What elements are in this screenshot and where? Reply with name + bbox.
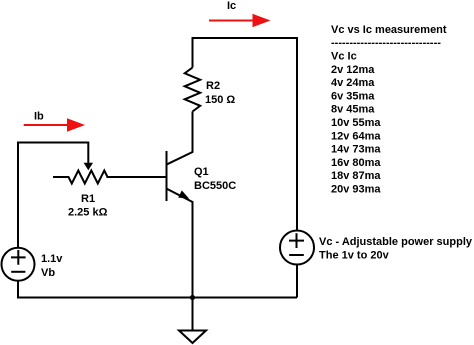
svg-text:18v 87ma: 18v 87ma xyxy=(331,170,381,182)
svg-text:The 1v to 20v: The 1v to 20v xyxy=(319,250,390,262)
svg-text:R1: R1 xyxy=(81,193,95,205)
svg-text:20v 93ma: 20v 93ma xyxy=(331,184,381,196)
svg-text:2.25 kΩ: 2.25 kΩ xyxy=(68,207,108,219)
svg-text:BC550C: BC550C xyxy=(194,180,236,192)
svg-text:8v 45ma: 8v 45ma xyxy=(331,104,375,116)
svg-text:1.1v: 1.1v xyxy=(41,253,63,265)
svg-text:Ic: Ic xyxy=(227,0,236,12)
svg-text:Vb: Vb xyxy=(41,267,55,279)
svg-text:10v 55ma: 10v 55ma xyxy=(331,117,381,129)
svg-text:14v 73ma: 14v 73ma xyxy=(331,144,381,156)
svg-text:6v 35ma: 6v 35ma xyxy=(331,90,375,102)
svg-text:Vc - Adjustable power supply: Vc - Adjustable power supply xyxy=(319,236,473,248)
svg-text:R2: R2 xyxy=(206,80,220,92)
svg-text:Vc Ic: Vc Ic xyxy=(331,51,357,63)
svg-text:Vc vs Ic measurement: Vc vs Ic measurement xyxy=(331,24,447,36)
svg-text:150 Ω: 150 Ω xyxy=(205,94,235,106)
svg-text:Q1: Q1 xyxy=(194,166,209,178)
svg-text:------------------------------: ------------------------------ xyxy=(331,37,441,49)
svg-text:2v 12ma: 2v 12ma xyxy=(331,64,375,76)
svg-text:Ib: Ib xyxy=(34,111,44,123)
svg-text:16v 80ma: 16v 80ma xyxy=(331,157,381,169)
svg-text:12v 64ma: 12v 64ma xyxy=(331,130,381,142)
svg-text:4v 24ma: 4v 24ma xyxy=(331,77,375,89)
